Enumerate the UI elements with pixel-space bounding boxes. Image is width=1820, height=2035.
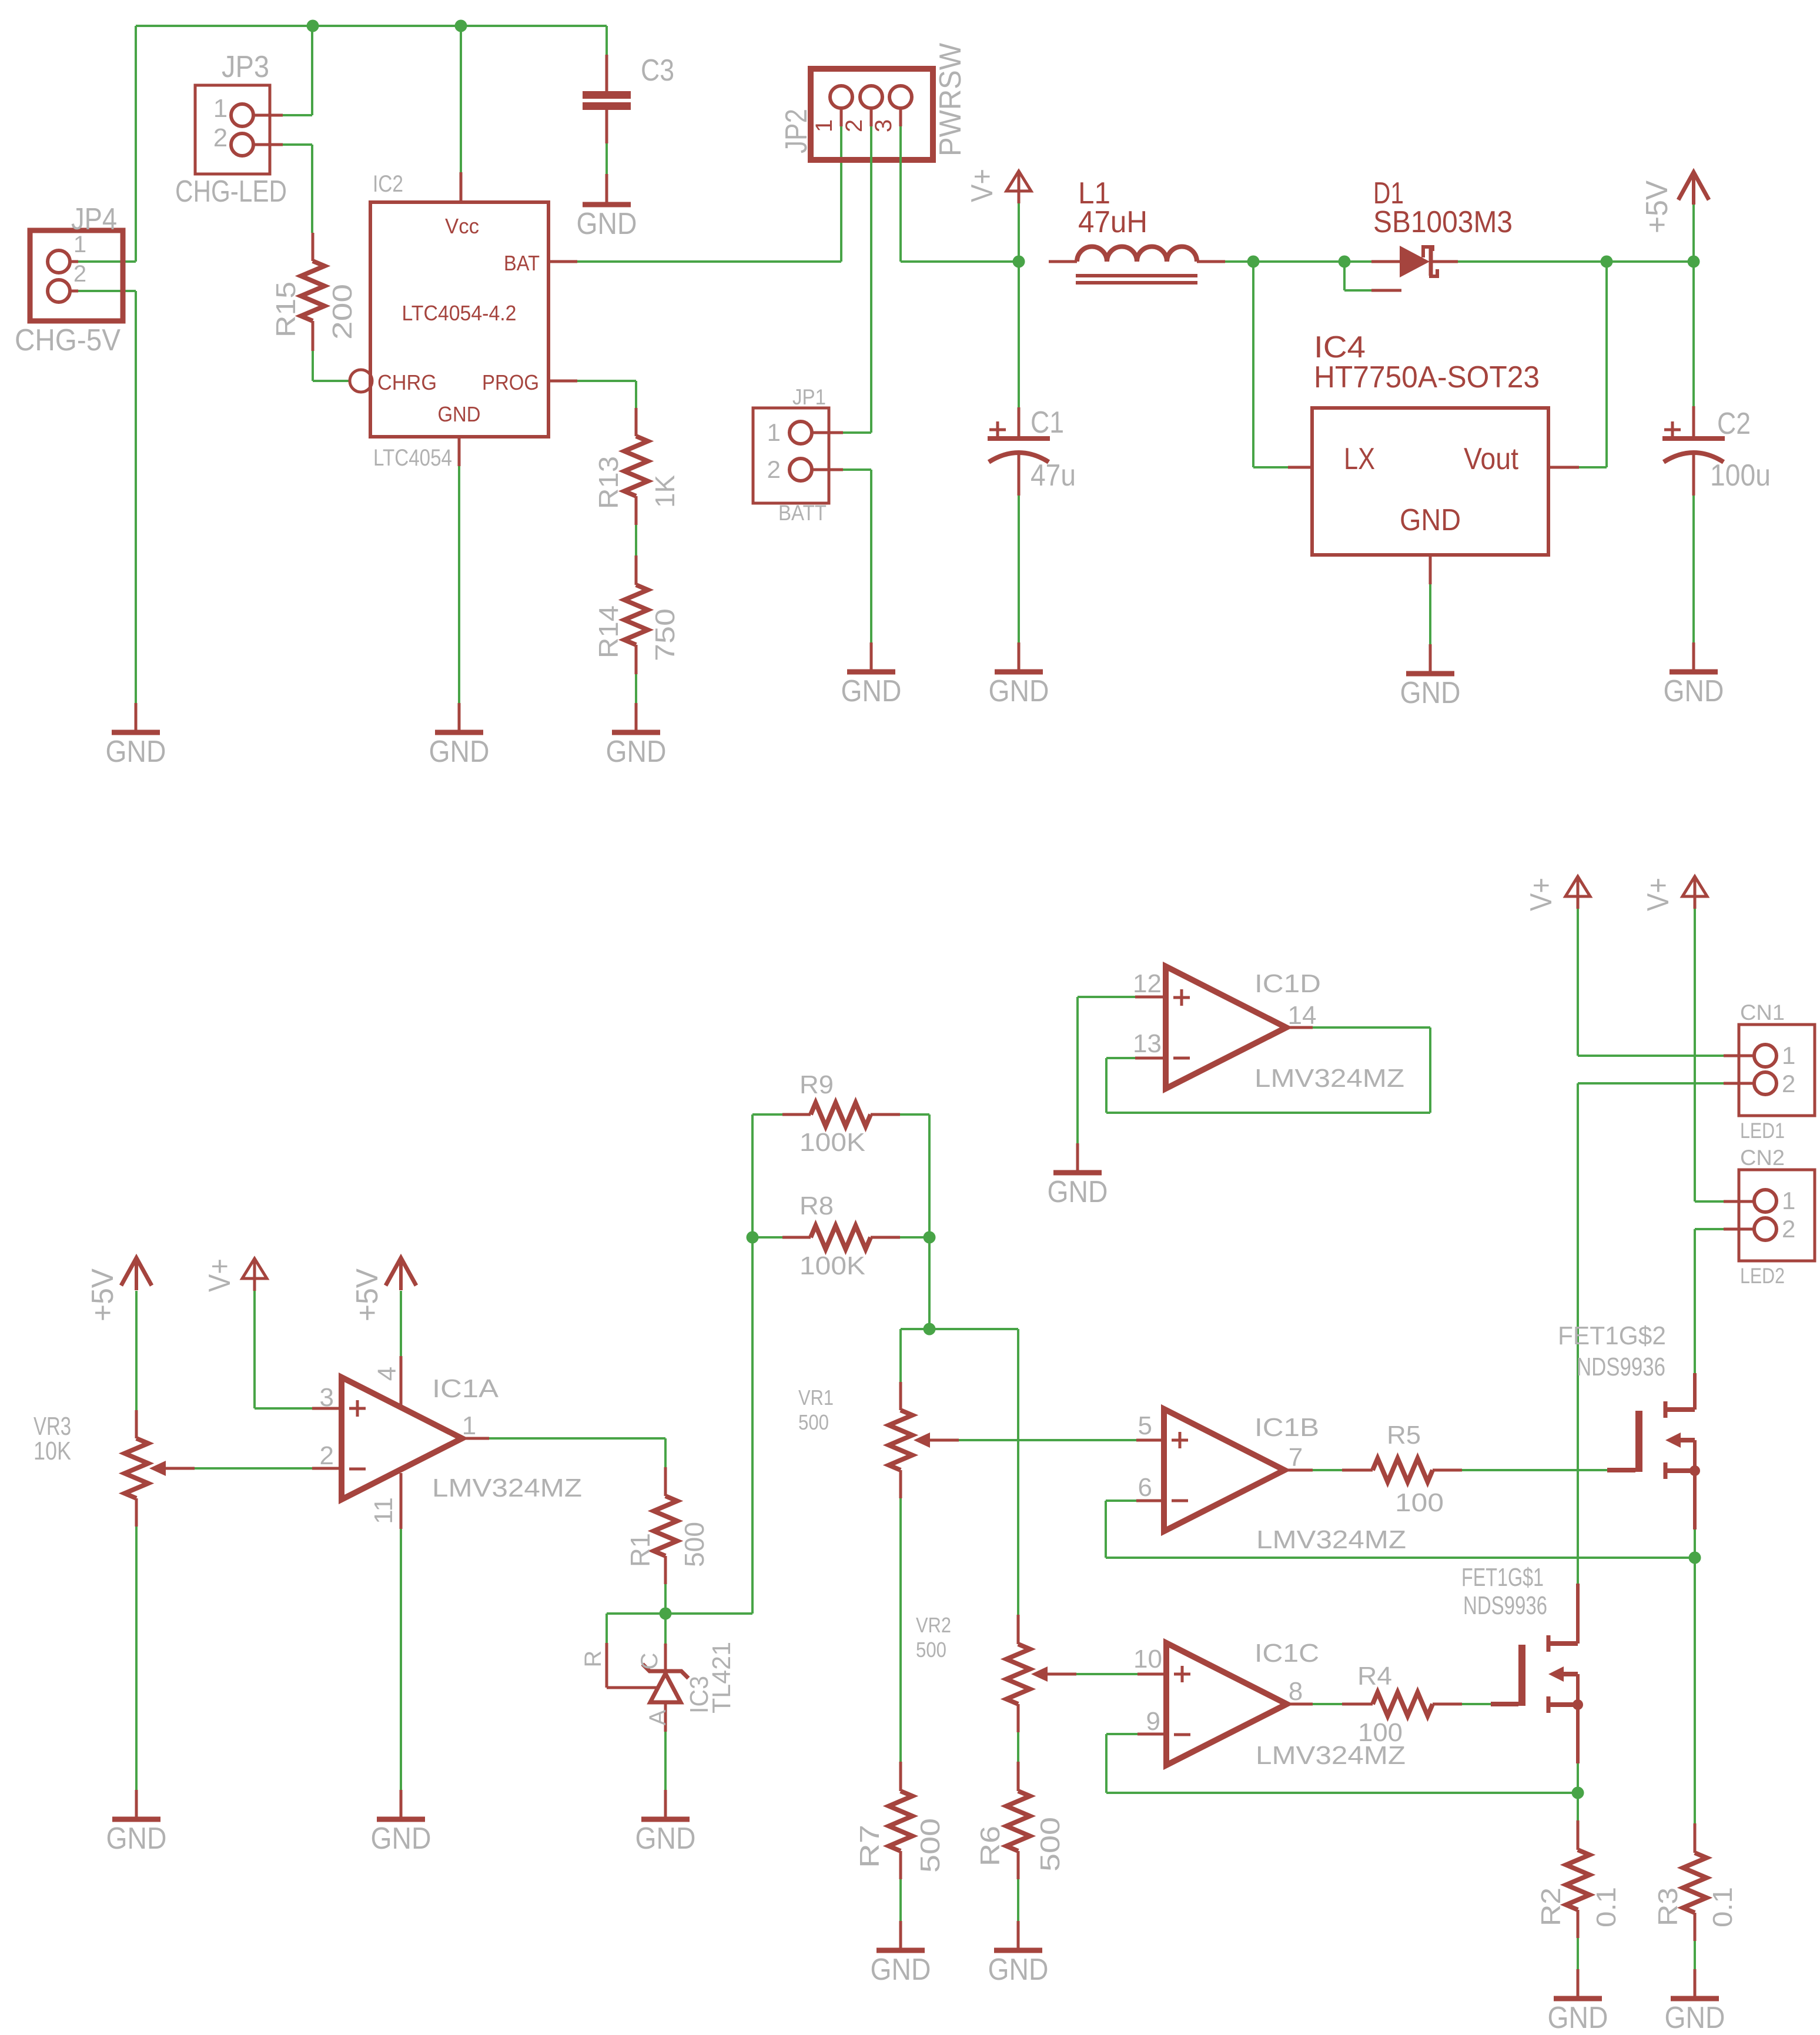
capacitor C3 [605, 26, 608, 55]
IC2 LTC4054-4.2 [370, 202, 548, 437]
svg-text:R4: R4 [1357, 1662, 1392, 1691]
svg-text:1: 1 [1782, 1187, 1795, 1214]
svg-text:VR1: VR1 [798, 1385, 834, 1410]
wire IC1D feedback loop [1106, 1057, 1135, 1059]
svg-text:FET1G$2: FET1G$2 [1558, 1321, 1666, 1350]
resistor R1 500 [664, 1467, 667, 1496]
wire Vref to IC3 cathode [664, 1614, 667, 1644]
svg-text:GND: GND [371, 1822, 431, 1856]
svg-text:47u: 47u [1031, 458, 1076, 493]
svg-text:GND: GND [988, 1953, 1049, 1987]
svg-text:CHRG: CHRG [377, 370, 437, 394]
resistor R3 0.1 [1694, 1823, 1697, 1853]
svg-text:A: A [645, 1709, 671, 1725]
wire R5 to FET2 gate [1462, 1469, 1607, 1471]
svg-text:1: 1 [1782, 1042, 1795, 1069]
ground GND (JP4 chain) [135, 703, 138, 732]
wire IC2 Vcc to top rail [460, 26, 462, 172]
wire IC1C feedback [1106, 1733, 1137, 1735]
wire JP2 pin2 to JP1 pin1 [870, 126, 872, 433]
svg-text:2: 2 [841, 119, 867, 132]
svg-text:1: 1 [767, 419, 781, 446]
svg-text:R9: R9 [799, 1070, 834, 1099]
wire JP1 pin1 to JP2 pin2 [843, 431, 871, 434]
svg-text:JP3: JP3 [222, 50, 269, 84]
svg-text:GND: GND [429, 735, 490, 769]
ground GND (R3) [1694, 1969, 1697, 1999]
svg-text:Vcc: Vcc [445, 214, 479, 238]
junction Vout node [1601, 256, 1613, 268]
svg-text:PROG: PROG [482, 370, 539, 394]
wire C1 to ground [1018, 496, 1020, 642]
svg-text:V+: V+ [1641, 878, 1675, 911]
svg-text:TL421: TL421 [707, 1642, 736, 1713]
svg-text:9: 9 [1146, 1707, 1160, 1736]
power +5V (top) [1692, 203, 1695, 262]
op-amp IC1D [1135, 996, 1166, 999]
svg-text:VR2: VR2 [916, 1613, 951, 1637]
svg-text:2: 2 [320, 1441, 334, 1470]
svg-text:GND: GND [606, 735, 667, 769]
svg-text:GND: GND [635, 1822, 696, 1856]
wire top rail [136, 25, 607, 27]
resistor R8 100K [782, 1236, 811, 1239]
svg-text:GND: GND [871, 1953, 931, 1987]
ground GND (IC2) [458, 703, 461, 732]
svg-text:HT7750A-SOT23: HT7750A-SOT23 [1314, 360, 1540, 394]
svg-text:100K: 100K [799, 1251, 865, 1280]
svg-text:IC2: IC2 [373, 171, 403, 197]
svg-text:2: 2 [767, 456, 781, 483]
svg-text:PWRSW: PWRSW [934, 43, 968, 156]
svg-text:R15: R15 [270, 282, 301, 337]
svg-text:13: 13 [1133, 1029, 1162, 1058]
connector CN1 LED1 [1739, 1025, 1815, 1116]
ground GND (R7) [899, 1921, 902, 1950]
wire JP4 pin2 to GND [78, 290, 136, 292]
wire node to VR1 [901, 1328, 929, 1330]
wire IC1D in+ to ground [1078, 996, 1135, 998]
junction top rail / JP3 drop [307, 20, 319, 32]
wire R15 to CHRG [312, 351, 314, 381]
svg-text:1: 1 [73, 232, 86, 257]
wire Vref to divider [665, 1612, 752, 1615]
wire right node drop [928, 1237, 931, 1329]
svg-text:R8: R8 [799, 1191, 834, 1220]
svg-text:R3: R3 [1652, 1887, 1683, 1926]
svg-text:+5V: +5V [350, 1268, 384, 1321]
wire R14 to ground [635, 674, 637, 703]
wire IC3 anode to ground [664, 1732, 667, 1790]
svg-text:NDS9936: NDS9936 [1463, 1591, 1547, 1620]
wire R4 to FET1 gate [1462, 1703, 1491, 1705]
svg-text:R6: R6 [975, 1826, 1005, 1866]
resistor R6 500 [1017, 1762, 1020, 1791]
svg-text:Vout: Vout [1464, 442, 1518, 476]
svg-text:100u: 100u [1710, 458, 1771, 493]
svg-text:LX: LX [1344, 442, 1375, 476]
svg-text:11: 11 [369, 1497, 398, 1524]
power V+ (LED2) [1682, 876, 1707, 896]
op-amp IC1C [1137, 1673, 1166, 1676]
wire FET2 gate pin [1607, 1468, 1635, 1472]
svg-text:CN1: CN1 [1740, 1000, 1785, 1025]
wire R2 to ground [1577, 1938, 1579, 1969]
svg-text:GND: GND [841, 674, 902, 708]
wire R3 to ground [1694, 1941, 1696, 1969]
svg-text:R5: R5 [1387, 1421, 1421, 1450]
op-amp IC1A [312, 1407, 342, 1410]
wire FET2 source [1693, 1471, 1697, 1529]
wire IC1B feedback [1106, 1500, 1136, 1502]
svg-text:CHG-LED: CHG-LED [175, 175, 287, 209]
svg-text:GND: GND [106, 1822, 167, 1856]
resistor R2 0.1 [1577, 1820, 1580, 1850]
svg-text:500: 500 [915, 1818, 945, 1873]
resistor R15 200 [312, 233, 315, 261]
wire C2 to ground [1692, 496, 1695, 642]
ground GND (IC4) [1429, 644, 1432, 674]
wire BAT net [548, 260, 577, 263]
svg-text:GND: GND [989, 674, 1049, 708]
svg-text:750: 750 [650, 608, 680, 661]
wire R9 right drop [928, 1114, 931, 1237]
svg-text:47uH: 47uH [1078, 205, 1147, 239]
svg-text:2: 2 [213, 123, 227, 152]
connector JP4 CHG-5V [30, 230, 123, 321]
svg-text:14: 14 [1288, 1001, 1317, 1030]
svg-text:IC1A: IC1A [432, 1374, 499, 1403]
svg-text:R: R [580, 1651, 606, 1668]
wire IC4 GND pin [1429, 555, 1432, 584]
junction +5V node [1688, 256, 1700, 268]
svg-text:V+: V+ [965, 169, 999, 202]
wire IC1A V- to ground [400, 1529, 402, 1790]
ground GND (IC1D) [1076, 1143, 1079, 1173]
wire divider left leg [751, 1237, 754, 1614]
wire Vref to IC3 R pin [607, 1612, 665, 1615]
ground GND (IC1A) [400, 1790, 403, 1819]
resistor R9 100K [752, 1113, 782, 1116]
svg-text:GND: GND [577, 207, 637, 241]
junction top rail / IC2 Vcc drop [455, 20, 467, 32]
svg-text:C: C [637, 1653, 663, 1670]
wire VR2 wiper to IC1C in+ [1076, 1673, 1137, 1675]
svg-text:100: 100 [1395, 1488, 1444, 1517]
ground GND (C3) [605, 174, 608, 202]
svg-text:NDS9936: NDS9936 [1577, 1353, 1665, 1381]
svg-text:LMV324MZ: LMV324MZ [1256, 1525, 1406, 1554]
svg-text:C2: C2 [1717, 407, 1751, 441]
ground GND (IC3) [664, 1790, 667, 1819]
wire JP2 pin3 to V+ node [899, 126, 902, 262]
svg-text:12: 12 [1133, 969, 1162, 998]
wire R7 to ground [899, 1879, 902, 1921]
svg-text:BATT: BATT [778, 501, 827, 525]
svg-text:IC4: IC4 [1314, 330, 1366, 364]
svg-text:6: 6 [1138, 1473, 1152, 1502]
wire VR3 wiper to IC1A in- [195, 1467, 312, 1470]
svg-text:CHG-5V: CHG-5V [15, 323, 121, 357]
connector JP2 PWRSW [811, 69, 933, 160]
capacitor C1 47u [1018, 262, 1020, 407]
svg-text:C3: C3 [641, 53, 674, 88]
svg-text:4: 4 [373, 1367, 402, 1381]
svg-text:500: 500 [1035, 1817, 1065, 1872]
junction V+ node [1013, 256, 1025, 268]
svg-text:GND: GND [1665, 2001, 1725, 2035]
ground GND (VR3) [135, 1790, 138, 1819]
svg-text:R14: R14 [593, 605, 624, 658]
wire JP1 pin2 to ground [843, 468, 871, 471]
svg-text:LTC4054: LTC4054 [373, 445, 452, 471]
wire JP2 pin1 drop [840, 126, 842, 262]
ground GND (C2) [1692, 642, 1695, 672]
resistor R5 100 [1342, 1469, 1373, 1472]
svg-text:1: 1 [811, 119, 837, 132]
svg-text:CN2: CN2 [1740, 1146, 1785, 1170]
svg-text:8: 8 [1289, 1677, 1303, 1706]
svg-text:GND: GND [1400, 676, 1461, 710]
svg-text:500: 500 [916, 1638, 946, 1662]
junction FET2 source / IC1B fb [1689, 1552, 1701, 1564]
svg-text:1: 1 [462, 1411, 476, 1440]
svg-text:5: 5 [1138, 1411, 1152, 1440]
svg-text:+5V: +5V [1640, 180, 1674, 233]
svg-text:JP1: JP1 [792, 385, 826, 409]
svg-text:V+: V+ [1524, 878, 1558, 911]
resistor VR3 10K potentiometer [135, 1410, 138, 1438]
connector JP3 CHG-LED [195, 85, 270, 174]
svg-text:GND: GND [1548, 2001, 1608, 2035]
wire +5V rail [1607, 260, 1694, 263]
resistor R4 100 [1342, 1703, 1373, 1706]
wire L1 to LX node [1225, 260, 1253, 263]
svg-text:LMV324MZ: LMV324MZ [432, 1474, 582, 1502]
wire diode net [1253, 260, 1344, 263]
svg-text:10: 10 [1133, 1645, 1162, 1673]
svg-text:SB1003M3: SB1003M3 [1373, 205, 1513, 239]
wire CN1 pin2 to FET1 drain [1724, 1082, 1754, 1085]
svg-text:LED1: LED1 [1740, 1119, 1785, 1143]
connector CN2 LED2 [1739, 1170, 1815, 1261]
svg-text:IC1D: IC1D [1254, 969, 1321, 998]
wire V+ to CN1 pin1 [1577, 909, 1579, 1056]
wire Vout drop [1605, 262, 1608, 467]
resistor R14 750 [635, 555, 638, 585]
svg-text:LED2: LED2 [1740, 1264, 1785, 1288]
svg-text:R2: R2 [1535, 1887, 1566, 1926]
ground GND (JP1) [870, 642, 873, 672]
svg-text:100: 100 [1358, 1718, 1403, 1747]
power +5V (IC1A V+) [386, 1258, 416, 1286]
ground GND (R14) [635, 703, 638, 732]
svg-text:2: 2 [73, 261, 86, 287]
wire R6 to ground [1017, 1879, 1019, 1921]
svg-text:200: 200 [327, 284, 357, 340]
wire IC2 GND pin to ground [458, 437, 461, 466]
power V+ (IC1A in+) [242, 1259, 267, 1278]
wire VR2 to R6 [1017, 1732, 1019, 1762]
svg-text:2: 2 [1782, 1070, 1795, 1097]
power V+ (battery node) [1006, 171, 1031, 191]
wire R9 left drop [751, 1114, 754, 1237]
wire JP4 pin1 riser [135, 26, 137, 262]
ground GND (R6) [1017, 1921, 1020, 1950]
svg-text:R13: R13 [593, 456, 624, 509]
svg-text:GND: GND [106, 735, 166, 769]
svg-text:GND: GND [1400, 503, 1461, 537]
wire anode2 stub [1343, 262, 1346, 290]
wire PROG net to R13 [548, 380, 577, 383]
svg-text:+5V: +5V [86, 1268, 120, 1321]
resistor VR1 500 potentiometer [899, 1382, 902, 1410]
svg-text:FET1G$1: FET1G$1 [1461, 1563, 1544, 1592]
svg-text:3: 3 [871, 119, 896, 132]
svg-text:BAT: BAT [504, 251, 540, 275]
power V+ (LED1) [1565, 876, 1590, 896]
wire FET1 source [1576, 1705, 1580, 1763]
inductor L1 47uH [1049, 260, 1077, 263]
svg-text:LMV324MZ: LMV324MZ [1254, 1064, 1404, 1093]
capacitor C2 100u [1692, 262, 1695, 406]
resistor R7 500 [899, 1762, 902, 1791]
svg-text:GND: GND [1048, 1175, 1108, 1209]
op-amp IC1B [1136, 1439, 1164, 1442]
svg-text:7: 7 [1289, 1443, 1303, 1472]
IC3 TL421 shunt reference [664, 1644, 667, 1671]
IC4 HT7750A-SOT23 [1312, 408, 1548, 555]
wire IC1A out to R1 [489, 1437, 665, 1440]
svg-text:R7: R7 [854, 1825, 885, 1868]
svg-text:500: 500 [798, 1410, 829, 1434]
svg-text:500: 500 [679, 1522, 710, 1567]
resistor VR2 500 potentiometer [1017, 1615, 1020, 1644]
svg-text:IC1C: IC1C [1254, 1639, 1319, 1668]
svg-text:R1: R1 [625, 1533, 655, 1567]
svg-text:1K: 1K [650, 475, 680, 508]
wire IC1B out to R5 [1313, 1469, 1342, 1471]
svg-text:C1: C1 [1031, 406, 1064, 440]
resistor R13 1K [635, 408, 638, 436]
ground GND (R2) [1577, 1969, 1580, 1999]
svg-text:IC1B: IC1B [1254, 1413, 1319, 1442]
wire R1 to Vref node [664, 1584, 667, 1614]
svg-text:GND: GND [1664, 674, 1724, 708]
wire JP3 pin2 to R15 [283, 143, 312, 146]
svg-text:10K: 10K [34, 1437, 71, 1465]
svg-text:0.1: 0.1 [1707, 1887, 1738, 1927]
svg-text:V+: V+ [203, 1259, 237, 1292]
svg-text:GND: GND [438, 402, 481, 426]
wire FET1 gate pin [1491, 1702, 1518, 1706]
svg-text:JP2: JP2 [779, 109, 814, 153]
wire CN2 pin2 to FET2 drain [1724, 1228, 1754, 1231]
junction FET1 source / IC1C fb [1572, 1787, 1584, 1799]
wire JP3 pin1 to top rail [283, 114, 312, 116]
ground GND (C1) [1018, 642, 1021, 672]
wire R13 to R14 [635, 525, 637, 555]
connector JP1 BATT [753, 408, 829, 503]
wire V+ to CN2 pin1 [1694, 909, 1696, 1201]
wire node to VR2 branch [929, 1328, 1018, 1330]
junction LX node [1247, 256, 1260, 268]
svg-text:LTC4054-4.2: LTC4054-4.2 [402, 301, 517, 325]
svg-text:0.1: 0.1 [1591, 1887, 1621, 1927]
junction R8 left [747, 1231, 759, 1244]
svg-text:1: 1 [213, 94, 227, 123]
diode D1 SB1003M3 [1344, 260, 1371, 263]
junction VR1 node [924, 1323, 936, 1336]
junction R8 right [924, 1231, 936, 1244]
junction Vref node [660, 1608, 672, 1620]
svg-text:2: 2 [1782, 1215, 1795, 1243]
wire VR1 to R7 [899, 1498, 902, 1762]
svg-text:3: 3 [320, 1383, 334, 1412]
wire IC1C out to R4 [1313, 1703, 1342, 1705]
wire LX drop to IC4 [1252, 262, 1254, 467]
wire VR1 wiper to IC1B in+ [959, 1439, 1136, 1441]
junction D1 anode2 tap [1339, 256, 1351, 268]
svg-text:100K: 100K [799, 1128, 865, 1157]
wire D1 cathode to +5V node [1458, 260, 1607, 263]
wire VR3 to ground [135, 1527, 138, 1790]
power +5V (VR3) [121, 1258, 152, 1286]
